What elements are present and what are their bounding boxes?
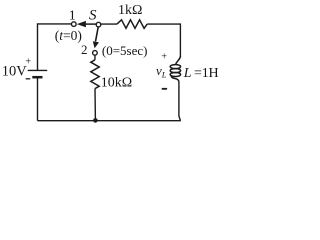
wire pivot to resistor R1 <box>101 23 117 25</box>
junction dot node B <box>93 118 98 123</box>
node 2 terminal circle <box>93 51 98 56</box>
switch pivot S circle <box>96 22 101 27</box>
wire inductor to bottom-right corner <box>38 81 181 120</box>
resistor R2 10kOhm zigzag <box>91 60 99 89</box>
svg-text:2: 2 <box>81 42 88 57</box>
wire battery to bottom-left corner <box>37 77 39 121</box>
svg-text:1kΩ: 1kΩ <box>118 3 142 18</box>
battery V1 negative plate <box>32 76 42 79</box>
svg-text:S: S <box>89 8 97 24</box>
svg-text:10V: 10V <box>2 63 28 79</box>
switch S arm to position 1 (arrow) <box>77 21 98 27</box>
svg-text:1: 1 <box>69 8 76 23</box>
label minus (inductor) <box>162 88 167 90</box>
wire node 2 to resistor R2 <box>94 55 96 60</box>
resistor R1 1kOhm zigzag <box>117 20 147 29</box>
svg-text:vL: vL <box>156 63 167 79</box>
wire resistor R1 to top-right corner and down <box>147 24 180 57</box>
battery V1 positive plate <box>28 69 48 71</box>
wire top-left segment <box>38 24 72 71</box>
wire resistor R2 to junction <box>94 89 96 121</box>
inductor L1 coil <box>170 56 180 81</box>
svg-text:+: + <box>161 52 167 63</box>
svg-text:+: + <box>25 56 31 67</box>
svg-text:10kΩ: 10kΩ <box>101 76 132 91</box>
switch arm to position 2 (arrow) <box>93 27 99 48</box>
svg-text:(0=5sec): (0=5sec) <box>102 43 148 58</box>
svg-text:(t=0): (t=0) <box>55 28 82 43</box>
label minus (battery) <box>26 78 31 80</box>
node 1 terminal circle <box>72 22 77 27</box>
svg-text:L =1H: L =1H <box>183 66 219 81</box>
